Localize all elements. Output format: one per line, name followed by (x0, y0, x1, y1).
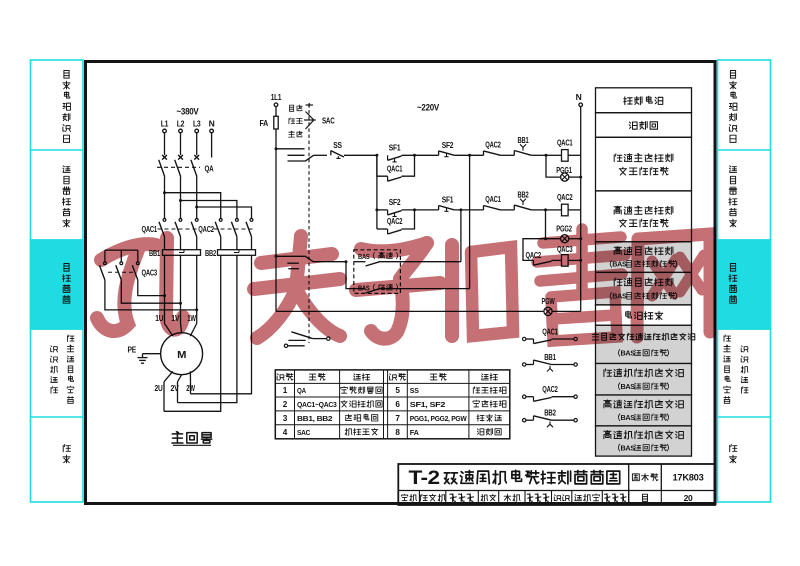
feedback contact QAC1 (run status low) (523, 326, 578, 343)
contactor QAC2 (main poles) (198, 216, 255, 250)
svg-text:FA: FA (260, 118, 269, 128)
svg-text:FA: FA (410, 428, 420, 437)
svg-text:T-2: T-2 (409, 467, 441, 489)
svg-text:BAS: BAS (620, 413, 635, 422)
title block signature row (419, 491, 661, 506)
atlas number label (632, 474, 658, 481)
svg-text:L3: L3 (193, 119, 201, 129)
thermal contact BB2 NC (rung2) (514, 189, 545, 210)
feedback contact QAC2 (run status high) (523, 384, 578, 401)
svg-text:L2: L2 (177, 119, 185, 129)
svg-text:BB1: BB1 (518, 135, 529, 145)
title block (398, 464, 715, 505)
function box: control power (596, 88, 692, 113)
thermal relay BB2 (205, 248, 256, 258)
wire BB1 to motor 1W (196, 255, 198, 321)
SAC contact (auto position) (275, 149, 348, 312)
function box: high-speed fault feedback (596, 426, 692, 456)
wire N stub (211, 133, 213, 158)
svg-text:2: 2 (283, 400, 288, 409)
wire motor 2V to BB2 (178, 255, 237, 402)
table row 3 (283, 414, 502, 423)
svg-text:SF2: SF2 (442, 140, 454, 150)
svg-text:SS: SS (410, 386, 419, 395)
table row 1 (283, 386, 506, 395)
terminal L2 (177, 119, 185, 133)
function box: fuse (596, 113, 692, 138)
svg-text:1: 1 (283, 386, 288, 395)
function box: low-speed fault feedback (596, 364, 692, 396)
wire N line (580, 107, 582, 312)
svg-text:BAS: BAS (620, 443, 635, 452)
svg-text:8: 8 (395, 428, 400, 437)
stop contact SF2 (rung1 NC) (439, 140, 484, 157)
interlock QAC1 NC (rung2) (484, 194, 515, 210)
designer cell 设计 赵晓宇 (554, 493, 626, 502)
svg-text:SF1, SF2: SF1, SF2 (410, 400, 445, 409)
svg-text:QAC1: QAC1 (485, 194, 501, 204)
svg-text:QAC2: QAC2 (542, 384, 558, 394)
svg-text:2U: 2U (155, 384, 163, 393)
selector switch SAC (289, 103, 335, 343)
svg-text:SS: SS (333, 140, 342, 150)
svg-text:QAC1: QAC1 (557, 137, 573, 147)
BAS (high speed) contact (354, 210, 461, 266)
feedback contact BB2 (fault high) (523, 408, 578, 428)
svg-text:QAC2: QAC2 (557, 192, 573, 202)
svg-text:SF1: SF1 (389, 143, 401, 153)
svg-text:N: N (209, 119, 215, 129)
lamp PGW rung (276, 296, 581, 315)
svg-text:PGG1, PGG2, PGW: PGG1, PGG2, PGW (410, 414, 468, 423)
aux contact QAC2 (self-hold) (377, 208, 416, 234)
coil QAC2 (544, 192, 581, 216)
terminal N (209, 119, 215, 133)
svg-text:QAC2: QAC2 (198, 224, 214, 234)
watermark 孔夫子旧書网 (97, 229, 710, 341)
checker cell 校对 余欣 (481, 493, 549, 502)
page label 页 (643, 494, 648, 501)
lamp PGG2 (544, 210, 582, 243)
svg-text:BB2: BB2 (544, 408, 556, 418)
svg-text:N: N (576, 92, 582, 102)
aux contact QAC1 (self-hold) (375, 154, 416, 181)
contactor QAC3 (star poles) (99, 250, 157, 280)
terminal N (control) (576, 92, 583, 107)
function box: low-speed manual control (596, 137, 692, 191)
breaker QA (157, 133, 214, 193)
coil QAC1 (545, 137, 581, 161)
svg-text:3: 3 (283, 414, 288, 423)
svg-text:QAC2: QAC2 (485, 139, 501, 149)
wire rung1 seg SF1-SF2 (402, 154, 439, 156)
BAS (low speed) contact (346, 155, 470, 293)
page number 20 (684, 493, 693, 503)
right sidebar tabs (718, 60, 771, 502)
wire L2 branch to QAC2 (179, 199, 237, 216)
function box: low-speed run status feedback (592, 325, 695, 363)
table row 2 (283, 400, 506, 409)
component table (275, 370, 510, 439)
label 2U 2V 2W (155, 384, 196, 393)
start button SF1 (rung1) (388, 143, 402, 162)
terminal L1 (161, 119, 169, 133)
thermal relay BB1 (149, 248, 201, 258)
svg-text:4: 4 (283, 428, 288, 437)
lamp PGG1 (546, 155, 582, 181)
svg-text:QA: QA (205, 164, 214, 174)
thermal contact BB1 NC (rung1) (514, 135, 546, 155)
wire QAC3 pole2 to 1V (121, 280, 182, 305)
atlas number 17K803 (673, 473, 704, 484)
SAC contact (manual position) (275, 147, 328, 161)
interlock QAC2 NC (rung1) (484, 139, 515, 155)
svg-text:QAC3: QAC3 (142, 268, 158, 278)
svg-text:M: M (177, 349, 187, 361)
svg-text:BB1: BB1 (544, 352, 556, 362)
svg-text:5: 5 (395, 386, 400, 395)
svg-text:7: 7 (395, 414, 400, 423)
label 主回路 (172, 432, 212, 446)
svg-text:SAC: SAC (297, 428, 311, 437)
function box: power indication (596, 305, 692, 325)
terminal 1L1 (271, 92, 282, 107)
BAS interface box (354, 250, 401, 294)
left sidebar tabs (31, 60, 84, 502)
wire QAC3 pole1 to 1W (105, 280, 198, 311)
fuse FA (260, 107, 279, 149)
drawing frame border (86, 62, 716, 504)
svg-text:QAC1~QAC3: QAC1~QAC3 (297, 400, 337, 409)
wire L3 branch to QAC2 (195, 206, 251, 216)
drawing title T-2 (409, 467, 620, 489)
contactor QAC1 (main poles) (142, 193, 200, 250)
terminal L3 (193, 119, 201, 133)
svg-text:BB2: BB2 (518, 189, 529, 199)
svg-text:L1: L1 (161, 119, 169, 129)
svg-text:SAC: SAC (322, 116, 335, 126)
svg-text:17K803: 17K803 (673, 473, 704, 484)
start button SF2 (rung2) (388, 197, 439, 216)
function box: high-speed manual control (596, 191, 692, 242)
table row 4 (283, 428, 501, 437)
svg-text:BB2: BB2 (205, 248, 216, 258)
function box: high-speed auto control (596, 242, 692, 273)
svg-text:20: 20 (684, 493, 693, 503)
aux contact QAC2 + coil QAC3 branch (523, 239, 582, 267)
svg-text:SF2: SF2 (389, 197, 401, 207)
svg-text:QAC1: QAC1 (142, 224, 158, 234)
svg-text:BAS: BAS (620, 382, 635, 391)
wire rung2 feed (375, 155, 387, 229)
wire QAC3 pole3 to 1U (138, 280, 166, 297)
stop button SS (331, 140, 377, 158)
feedback contact BB1 (fault low) (523, 352, 578, 372)
svg-text:PE: PE (128, 346, 137, 355)
motor M (161, 322, 203, 375)
wire motor 2W to BB2 (190, 255, 251, 393)
svg-text:~380V: ~380V (177, 107, 200, 118)
svg-text:QAC2: QAC2 (387, 216, 403, 226)
label ~380V (177, 107, 200, 118)
svg-text:PGG2: PGG2 (556, 223, 572, 233)
svg-text:QA: QA (297, 386, 306, 395)
wire BB1 to motor 1U (164, 255, 166, 321)
function box: high-speed run status feedback (596, 395, 692, 426)
svg-text:BB1, BB2: BB1, BB2 (297, 414, 332, 423)
table header (277, 373, 497, 380)
svg-text:QAC1: QAC1 (387, 163, 403, 173)
wire L1 branch to QAC2 (163, 191, 221, 215)
wire BB1 to motor 1V (180, 255, 182, 321)
SAC contact (feedback/auto) (284, 332, 330, 348)
wire motor 2U to BB2 (164, 255, 221, 411)
svg-text:1L1: 1L1 (271, 92, 282, 102)
ground PE (128, 346, 161, 364)
function box: low-speed auto control (596, 272, 692, 305)
label ~220V (417, 103, 440, 114)
svg-text:BAS: BAS (620, 349, 635, 358)
svg-text:SF1: SF1 (442, 195, 454, 205)
svg-text:~220V: ~220V (417, 103, 440, 114)
svg-text:6: 6 (395, 400, 400, 409)
stop contact SF1 (rung2 NC) (439, 195, 484, 212)
label 1U 1V 1W (155, 314, 196, 323)
reviewer cell 审核 金久炘 (401, 493, 474, 502)
